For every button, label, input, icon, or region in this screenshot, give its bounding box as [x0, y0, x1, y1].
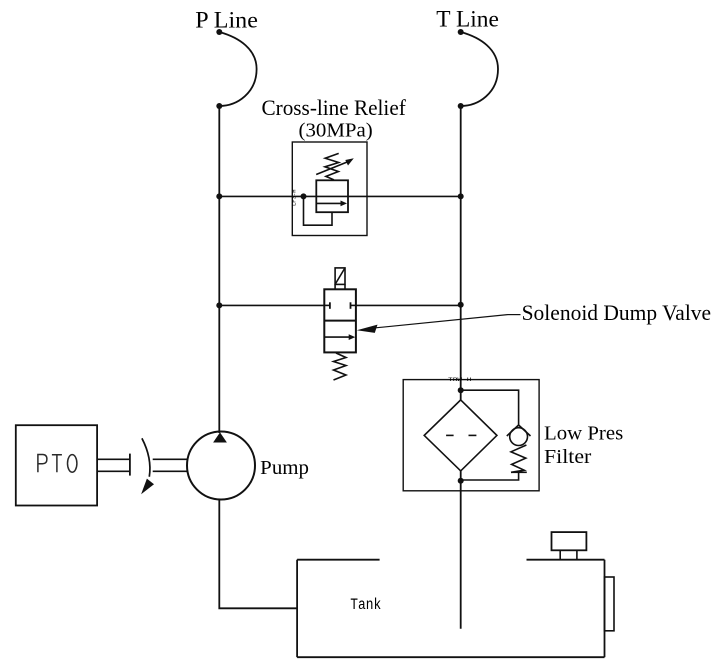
- filter outer box: [403, 380, 539, 491]
- node T top: [458, 29, 464, 35]
- svg-text:T Line: T Line: [436, 7, 499, 32]
- svg-text:Low Pres: Low Pres: [544, 422, 623, 444]
- svg-text:P Line: P Line: [195, 7, 258, 32]
- svg-text:LF3-H: LF3-H: [290, 189, 297, 206]
- PTO box: [16, 425, 97, 505]
- check valve seat: [507, 425, 531, 436]
- dump valve divider: [324, 320, 356, 322]
- pump outlet triangle: [213, 432, 227, 442]
- wire relief cross line: [219, 195, 460, 197]
- label PTO: [38, 455, 77, 473]
- check valve spring: [511, 445, 526, 472]
- dump valve blocked ports: [324, 302, 356, 309]
- drive shaft left: [97, 454, 130, 476]
- drive shaft right: [153, 459, 188, 471]
- filter diamond: [424, 400, 497, 471]
- wire check valve branch bottom: [461, 472, 519, 480]
- check valve spring base: [511, 471, 527, 473]
- dump valve body: [324, 289, 356, 352]
- dump valve spring: [334, 353, 347, 380]
- relief valve internal arrow: [316, 201, 347, 207]
- svg-text:Cross-line Relief: Cross-line Relief: [262, 95, 407, 120]
- node P arc bottom: [216, 103, 222, 109]
- pump U1 circle: [187, 432, 255, 500]
- node relief pilot junction: [301, 193, 307, 199]
- svg-text:TRW-H: TRW-H: [448, 377, 472, 383]
- relief adjust arrow: [316, 158, 354, 174]
- tank breather cap: [552, 532, 587, 560]
- wire filter vertical: [460, 390, 462, 400]
- node P junction at dump line: [216, 302, 222, 308]
- wire P vertical line: [218, 106, 220, 433]
- wire tank return line: [460, 481, 462, 629]
- svg-text:Filter: Filter: [544, 446, 592, 468]
- dump valve flow arrow: [324, 334, 355, 340]
- node filter bottom junction: [458, 478, 464, 484]
- node filter top junction: [458, 387, 464, 393]
- relief valve body: [316, 180, 348, 212]
- svg-text:Solenoid Dump Valve: Solenoid Dump Valve: [522, 300, 712, 325]
- wire check valve branch top: [461, 390, 519, 425]
- rotation arrow: [141, 438, 154, 494]
- node P top: [216, 29, 222, 35]
- relief spring: [325, 153, 339, 179]
- solenoid coil: [335, 268, 345, 289]
- tank level gauge: [605, 577, 615, 631]
- wire pump suction: [219, 499, 297, 608]
- filter element dashes: [446, 434, 476, 436]
- leader Solenoid Dump Valve: [357, 315, 521, 333]
- node T arc bottom: [458, 103, 464, 109]
- wire relief pilot line: [304, 196, 333, 225]
- node P junction at relief line: [216, 193, 222, 199]
- wire dump line right: [356, 304, 461, 306]
- wire diamond bottom to node: [460, 471, 462, 481]
- relief valve outer box: [292, 142, 367, 236]
- wire T-line arc: [461, 32, 498, 106]
- check valve ball: [510, 428, 528, 446]
- svg-text:Pump: Pump: [260, 457, 309, 479]
- wire dump line left: [219, 304, 324, 306]
- tank shell: [297, 560, 604, 658]
- node T junction at dump line: [458, 302, 464, 308]
- wire P-line arc: [219, 32, 256, 106]
- svg-text:(30MPa): (30MPa): [299, 119, 373, 141]
- svg-text:Tank: Tank: [350, 596, 381, 614]
- wire T vertical line: [460, 106, 462, 390]
- node T junction at relief line: [458, 193, 464, 199]
